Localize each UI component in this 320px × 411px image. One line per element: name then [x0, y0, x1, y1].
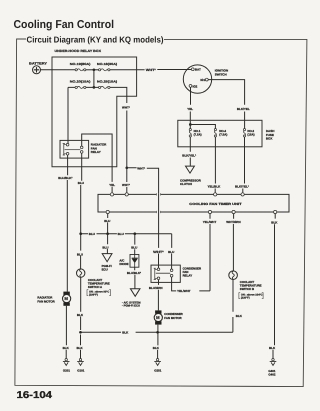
svg-text:SWITCH A: SWITCH A	[88, 285, 103, 289]
radiator fan relay coil	[63, 143, 69, 155]
wire WHT down to condenser fan relay	[158, 193, 160, 268]
svg-text:YEL: YEL	[187, 107, 193, 111]
svg-text:BLU: BLU	[168, 250, 174, 254]
fuse NO.20 (15A)	[70, 80, 91, 89]
radiator fan relay box	[60, 140, 89, 158]
coolant temperature switch A	[77, 269, 85, 277]
wire temp switch A down to ground	[80, 277, 82, 358]
svg-text:BLK: BLK	[63, 346, 70, 350]
A/C diode box	[130, 255, 139, 268]
wire A branch right with WHT label to condenser drop	[127, 168, 159, 194]
svg-text:FAN MOTOR: FAN MOTOR	[164, 316, 182, 320]
svg-text:RELAY: RELAY	[183, 274, 193, 278]
wire fuse NO.2 to timer BLK/YEL	[243, 147, 245, 193]
svg-text:BLK: BLK	[269, 346, 276, 350]
dash fuse box outline	[178, 120, 262, 147]
svg-text:BAT: BAT	[195, 68, 201, 72]
wire fuse18 to ignition switch BAT with WHT label	[110, 69, 191, 71]
svg-text:BLK/YEL¹: BLK/YEL¹	[235, 185, 249, 189]
condenser fan relay coil	[154, 268, 160, 280]
svg-text:BLK: BLK	[77, 346, 84, 350]
wire timer BLU down to bus junction	[107, 214, 109, 234]
compressor clutch connector triangle	[186, 166, 195, 173]
svg-text:M: M	[64, 296, 68, 301]
fuse NO.18 (30A)	[97, 62, 117, 71]
svg-text:BATTERY: BATTERY	[29, 61, 48, 65]
A/C system connector triangle	[130, 289, 140, 297]
wire condenser motor to ground	[157, 325, 159, 359]
ground G101	[77, 359, 85, 373]
wire battery to fuse row 1	[41, 69, 76, 71]
svg-text:(15A): (15A)	[247, 133, 254, 137]
wire relay coil bottom BLU/BLK to radiator fan motor	[66, 155, 68, 292]
junction bottom bus at condenser motor	[156, 331, 159, 334]
ground G401 G402	[268, 359, 276, 377]
timer terminals bottom	[106, 210, 277, 213]
wire BLU bus corner down to condenser fan relay	[171, 234, 173, 269]
internal bus to fuse NO.4	[190, 125, 215, 129]
svg-text:CLUTCH: CLUTCH	[180, 182, 192, 186]
wire IG1 to dash fuse box BLK/YEL	[208, 80, 244, 129]
svg-text:SWITCH: SWITCH	[215, 72, 227, 76]
junction IG2 bus	[189, 123, 192, 126]
wire condenser relay BLU/GRN to condenser motor	[157, 280, 159, 311]
PGM-FI ECU connector triangle	[102, 254, 112, 262]
svg-text:NO.19(80A): NO.19(80A)	[70, 62, 91, 66]
wire condenser relay to YEL/WHT timer	[172, 277, 210, 291]
svg-text:Cooling Fan Control: Cooling Fan Control	[14, 19, 115, 31]
fuse NO.2 (15A) vertical	[243, 129, 254, 147]
svg-text:BLU: BLU	[77, 252, 83, 256]
ignition switch	[183, 65, 228, 93]
bottom BLK bus	[81, 331, 233, 333]
svg-text:BLU: BLU	[131, 246, 137, 250]
wire junction row1 to row2	[93, 70, 95, 88]
svg-text:YEL/BLK: YEL/BLK	[208, 185, 222, 189]
svg-text:DIODE: DIODE	[119, 262, 128, 266]
condenser fan relay box	[151, 265, 180, 282]
dash fuse box label	[266, 129, 275, 141]
A/C diode label	[119, 259, 128, 267]
svg-text:NO.25(15A): NO.25(15A)	[97, 80, 117, 84]
svg-text:WHT¹: WHT¹	[153, 250, 164, 254]
radiator fan relay label	[91, 143, 107, 155]
svg-text:BLK: BLK	[77, 313, 84, 317]
svg-text:BLK: BLK	[122, 331, 129, 335]
svg-text:NO.20(15A): NO.20(15A)	[70, 80, 91, 84]
wire AC diode branch BLU	[134, 234, 136, 255]
wire row2 right segment to corner	[110, 87, 127, 167]
coolant temperature switch A label	[88, 278, 110, 289]
svg-text:Circuit Diagram (KY and KQ mod: Circuit Diagram (KY and KQ models)	[27, 35, 164, 45]
svg-text:- PGM-FI ECU: - PGM-FI ECU	[122, 304, 140, 308]
A/C diode symbol	[134, 255, 136, 268]
under-hood relay box outline	[52, 57, 137, 167]
svg-text:G101: G101	[77, 369, 84, 373]
fuse NO.25 (15A)	[97, 80, 117, 89]
svg-text:BLK/YEL¹: BLK/YEL¹	[182, 154, 196, 158]
ground G251	[154, 359, 161, 373]
condenser fan relay contact	[156, 269, 173, 277]
wire A continues to timer WHT terminal	[126, 168, 128, 193]
svg-text:IG1: IG1	[200, 78, 205, 82]
svg-text:UNDER-HOOD RELAY BOX: UNDER-HOOD RELAY BOX	[55, 49, 102, 53]
svg-text:(220°F): (220°F)	[241, 296, 250, 299]
svg-text:BLK: BLK	[271, 220, 278, 224]
wire IG2 down YEL	[189, 87, 191, 124]
svg-text:WHT¹: WHT¹	[137, 166, 145, 170]
radiator fan motor label	[37, 296, 55, 304]
svg-text:WHT/GRN: WHT/GRN	[226, 220, 240, 224]
svg-text:M: M	[156, 315, 160, 320]
svg-text:BLK: BLK	[153, 346, 160, 350]
svg-text:BLK: BLK	[236, 314, 243, 318]
coolant temperature switch B note bracket	[241, 294, 263, 300]
wire AC diode to connector BLU/BLK	[134, 267, 136, 288]
svg-text:WHT¹: WHT¹	[122, 183, 130, 187]
svg-text:BLU/GRN: BLU/GRN	[149, 286, 163, 290]
svg-text:G251: G251	[154, 369, 161, 373]
condenser fan motor	[154, 310, 162, 324]
svg-text:WHT¹: WHT¹	[122, 106, 130, 110]
radiator fan motor	[63, 292, 71, 306]
BLU bus horizontal	[81, 233, 172, 235]
svg-text:BLU: BLU	[102, 245, 108, 249]
junction bus at PGM-FI wire	[106, 232, 109, 235]
timer terminals top	[110, 193, 244, 196]
wire radiator motor to ground G201	[65, 306, 67, 359]
svg-text:SWITCH B: SWITCH B	[240, 287, 254, 291]
wire fuse NO.4 to timer YEL/BLK	[214, 147, 216, 193]
junction row2	[93, 86, 96, 89]
svg-text:BOX: BOX	[266, 137, 273, 141]
radiator fan relay contact	[65, 146, 83, 153]
svg-text:BLU: BLU	[89, 232, 95, 236]
ground G201	[63, 359, 70, 373]
svg-text:(7.5A): (7.5A)	[194, 133, 202, 137]
svg-text:BLU/BLK¹: BLU/BLK¹	[58, 176, 72, 180]
svg-text:BLK/YEL: BLK/YEL	[237, 107, 250, 111]
coolant temperature switch A note bracket	[89, 291, 109, 297]
fuse NO.1 (7.5A) vertical	[189, 125, 201, 147]
coolant temperature switch B	[229, 271, 238, 280]
junction on wire A	[125, 166, 128, 169]
wire row2 left corner down to relay coil	[67, 87, 69, 143]
svg-text:ECU: ECU	[102, 267, 108, 271]
svg-text:YEL/WHT: YEL/WHT	[203, 220, 217, 224]
wire timer BLK to ground G401	[273, 214, 275, 359]
svg-text:BLU: BLU	[78, 181, 84, 185]
junction bus at AC diode wire	[133, 232, 136, 235]
svg-text:NO.18(30A): NO.18(30A)	[97, 62, 117, 66]
wire PGM-FI ECU connector BLU	[106, 234, 108, 254]
wire relay contact bottom BLU	[81, 153, 82, 269]
A/C system PGM-FI ECU label	[122, 300, 141, 307]
svg-text:YEL/WHT: YEL/WHT	[177, 289, 191, 293]
svg-text:G201: G201	[63, 369, 70, 373]
cooling fan timer unit box	[98, 194, 289, 212]
svg-text:BLU: BLU	[104, 219, 110, 223]
diagram frame border	[15, 39, 307, 387]
fuse NO.4 (7.5A) vertical	[214, 129, 227, 147]
svg-text:IG2: IG2	[193, 84, 198, 88]
svg-text:BLU: BLU	[118, 232, 124, 236]
fuse NO.19 (80A)	[70, 62, 91, 71]
junction bus at temp switch A wire	[79, 232, 82, 235]
wire fuse19 to fuse18	[86, 69, 99, 71]
svg-text:FAN MOTOR: FAN MOTOR	[37, 299, 55, 303]
PGM-FI ECU label	[102, 264, 112, 272]
svg-text:RELAY: RELAY	[91, 150, 101, 154]
svg-text:COOLING FAN TIMER UNIT: COOLING FAN TIMER UNIT	[189, 202, 241, 206]
junction row1	[93, 68, 96, 71]
condenser fan motor label	[164, 312, 183, 320]
svg-text:16-104: 16-104	[17, 390, 53, 401]
battery B1	[29, 61, 48, 73]
compressor clutch label	[180, 179, 202, 187]
wire relay contact to YEL timer terminal	[82, 134, 112, 193]
junction bottom bus at temp A	[79, 331, 82, 334]
wire timer WHT/GRN to temp switch B	[232, 214, 234, 271]
svg-text:BLU/BLK¹: BLU/BLK¹	[127, 271, 141, 275]
wire temp switch B to bottom bus	[232, 280, 234, 333]
svg-text:WHT¹: WHT¹	[146, 68, 156, 72]
svg-text:YEL: YEL	[109, 183, 115, 187]
svg-text:(7.5A): (7.5A)	[219, 133, 227, 137]
coolant temperature switch B label	[240, 280, 262, 291]
condenser fan relay label	[183, 266, 202, 277]
svg-text:G402: G402	[268, 373, 275, 377]
wire fuse NO.1 to compressor clutch connector BLK/YEL	[189, 147, 191, 166]
wire row2 left segment	[68, 86, 99, 88]
svg-text:(199°F): (199°F)	[89, 293, 98, 296]
